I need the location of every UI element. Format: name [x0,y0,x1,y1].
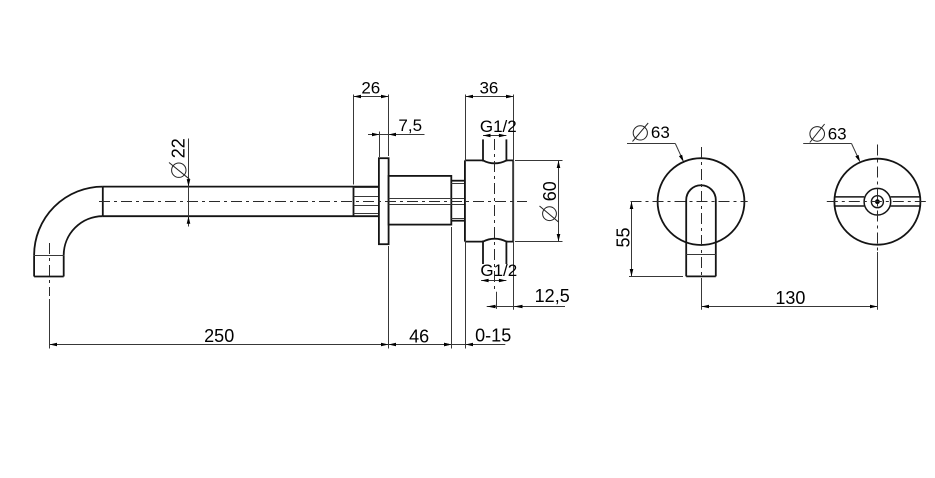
label diameter 63 left [627,123,684,162]
label G1/2 top [480,117,517,138]
handle lever bar lines [835,197,920,206]
svg-text:60: 60 [540,181,560,201]
dimension 55 [613,202,683,277]
svg-text:36: 36 [479,79,498,98]
dimension 0-15 [444,227,511,349]
handle horizontal centerline [827,201,926,203]
dimension 12,5 [487,286,570,309]
inner shank lines [389,199,465,205]
handle center dot [875,199,880,204]
front spout vertical centerline [701,147,703,310]
front view handle circle [834,159,920,245]
label G1/2 bottom [480,261,517,282]
svg-text:63: 63 [828,125,847,144]
svg-text:55: 55 [613,227,633,247]
bottom G1/2 stub [483,241,506,265]
front view spout circle [658,158,745,245]
spout curved outlet [34,187,103,277]
handle vertical centerline [877,145,879,310]
threaded nipple [451,181,465,221]
svg-text:G1/2: G1/2 [480,117,517,136]
hex thread section [354,187,379,217]
handle small circle [871,196,883,208]
dimension 36 [466,79,514,349]
dimension 130 [702,288,878,309]
svg-text:46: 46 [409,326,429,346]
svg-text:22: 22 [168,138,188,158]
front view spout tube [686,185,716,276]
handle medium circle [864,188,891,215]
svg-text:250: 250 [204,326,234,346]
dimension 250 [50,299,389,349]
valve body [465,160,513,241]
top G1/2 stub [483,139,506,161]
dimension diameter 22 [168,138,190,226]
wall flange [379,158,389,244]
dimension 46 [389,246,452,349]
label diameter 63 right [803,124,860,162]
dimension diameter 60 [515,161,563,242]
outlet centerline [49,243,51,296]
valve body vertical centerline [494,139,496,292]
svg-text:G1/2: G1/2 [480,261,517,280]
svg-text:12,5: 12,5 [535,286,570,306]
body tube behind wall [389,176,452,225]
svg-text:63: 63 [651,123,670,142]
spout tube (side view) [103,187,379,217]
dimension 7,5 [368,116,425,157]
svg-text:7,5: 7,5 [398,116,422,135]
svg-text:0-15: 0-15 [475,326,511,346]
svg-text:130: 130 [775,288,805,308]
svg-text:26: 26 [361,79,380,98]
main horizontal centerline [99,201,527,203]
front spout horizontal centerline [631,201,748,203]
dimension 26 [354,79,389,185]
